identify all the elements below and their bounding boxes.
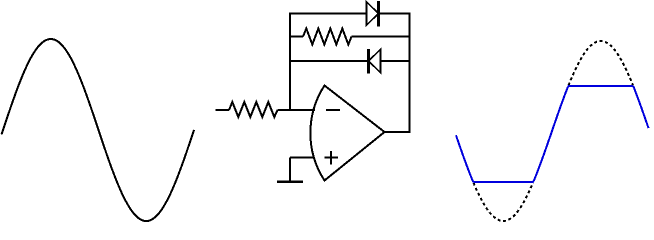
wire lower branch left: [289, 60, 369, 62]
wire R1 to inverting input: [278, 109, 315, 111]
wire middle branch right: [352, 36, 411, 38]
clipped sine trough (dashed): [474, 183, 534, 221]
wire middle branch left: [289, 36, 303, 38]
diode D2 (lower, cathode left): [367, 49, 370, 74]
diode D1 (top, anode left): [367, 2, 379, 25]
wire top branch left: [289, 13, 367, 15]
wire output: [385, 131, 411, 133]
clipped sine peak (dashed): [569, 41, 634, 85]
output waveform (clipped, blue): [456, 86, 649, 182]
ground symbol: [277, 180, 303, 183]
op-amp plus label: [325, 157, 339, 159]
resistor R1 (input): [229, 102, 278, 117]
op-amp U1 body: [310, 86, 384, 181]
wire right feedback rail: [409, 13, 411, 134]
wire left feedback rail: [289, 13, 291, 111]
input signal sine wave: [2, 39, 195, 221]
wire input stub: [216, 109, 230, 111]
wire non-inverting input: [290, 157, 314, 159]
wire ground stem: [289, 158, 291, 182]
op-amp minus label: [326, 109, 340, 111]
wire top branch right: [379, 13, 411, 15]
wire lower branch right: [381, 60, 411, 62]
resistor R2 (feedback): [303, 29, 352, 45]
